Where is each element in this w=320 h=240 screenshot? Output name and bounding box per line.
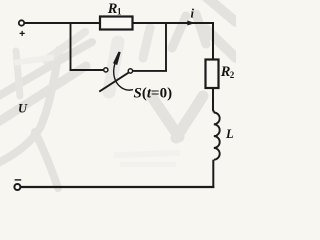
svg-text:S(t=0): S(t=0) [134, 86, 173, 102]
watermark stroke: right char upper left slant [172, 16, 186, 48]
watermark stroke: lower diagonal stripe [0, 66, 86, 124]
watermark stroke: lower V right [176, 96, 203, 138]
watermark faint text row 2 [120, 162, 176, 167]
switch motion arrowhead [113, 52, 121, 66]
arrow: current i on top wire [187, 21, 195, 26]
label: minus polarity [15, 179, 22, 181]
wire: R2 to inductor [212, 88, 215, 113]
wire: left branch horizontal to switch [70, 69, 104, 71]
wire: inductor to bottom corner [212, 160, 214, 188]
watermark stroke: left char right leg [35, 132, 58, 188]
svg-text:i: i [191, 7, 195, 21]
watermark stroke: right char diagonal to corner [206, 29, 236, 58]
svg-text:U: U [18, 102, 28, 116]
watermark stroke: upper diagonal stripe [0, 42, 92, 98]
label: plus polarity [20, 31, 25, 36]
wire: right side, corner to R2 [212, 22, 214, 60]
watermark stroke: mid diagonal band [46, 32, 85, 60]
terminal: top-left input [19, 20, 24, 25]
svg-text:1: 1 [117, 7, 122, 17]
watermark faint small text upper [14, 54, 54, 66]
terminal: bottom-left input [14, 184, 20, 190]
wire: bottom [21, 186, 215, 188]
switch contact: left circle [104, 68, 108, 72]
resistor R2 box [206, 60, 219, 89]
wire: left branch vertical [70, 22, 72, 71]
svg-text:2: 2 [230, 70, 235, 80]
svg-text:L: L [225, 127, 234, 141]
resistor R1 box [100, 17, 133, 30]
watermark stroke: right char upper cross [196, 14, 206, 44]
switch contact: right circle [128, 69, 132, 73]
watermark faint text row 1 [114, 150, 180, 158]
watermark stroke: left short vertical [16, 51, 20, 96]
wire: top, terminal to R1 [24, 22, 100, 24]
switch motion arc [114, 58, 133, 91]
inductor L coil [214, 113, 220, 160]
wire: top, R1 to right corner [133, 22, 215, 24]
watermark stroke: vertical behind switch arrow [109, 42, 118, 92]
watermark stroke: top-right corner band [205, 0, 236, 22]
switch blade S [99, 73, 128, 92]
wire: right branch vertical up [165, 22, 167, 71]
wire: switch right to vertical [133, 70, 167, 72]
watermark stroke: band left of R2 top [143, 28, 150, 58]
watermark stroke: left char falling leg [0, 50, 59, 163]
watermark stroke: lower V left [152, 97, 179, 137]
